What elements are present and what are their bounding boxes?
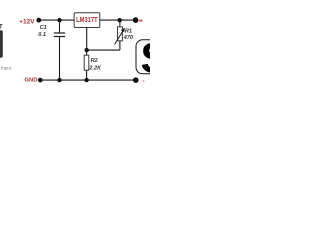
node C1 top junction [57,18,61,22]
wire R1 bottom lead [119,41,121,50]
node C1 bottom junction [57,78,61,82]
node R1 top junction [118,18,122,22]
logo rounded frame (cut off right) [136,40,166,74]
svg-text:LM317T: LM317T [76,17,97,25]
trimmer arrow of R1 [115,30,124,44]
svg-text:0.1: 0.1 [38,32,46,38]
svg-text:T: T [0,23,3,30]
resistor R2 body [84,55,89,70]
wire C1 bottom lead [59,37,61,80]
resistor R1 body (trimmer) [118,27,123,41]
wire top rail left segment [39,19,74,21]
svg-text:S: S [141,34,151,82]
wire bottom rail [40,79,136,81]
node output ground terminal dot [133,77,139,83]
wire top rail right segment [100,19,136,21]
svg-text:C1: C1 [40,25,47,31]
capacitor C1 plates [54,32,65,34]
ground red tick [143,80,145,81]
cut-off photo dark bar (left edge) [0,30,3,57]
wire ADJ pin down from regulator [86,28,88,51]
node R2 bottom junction [84,78,88,82]
svg-text:R1: R1 [125,29,132,35]
svg-text:+12V: +12V [19,19,35,26]
wire R1 top lead [119,20,121,27]
background [0,0,150,100]
svg-text:470: 470 [123,35,134,41]
wire R2 bottom lead [86,70,88,80]
svg-text:GND: GND [25,77,38,83]
node: +12V input terminal dot [36,18,41,23]
node GND input terminal dot [38,78,43,83]
wire R2 top lead [86,50,88,55]
svg-text:Input: Input [1,65,12,70]
wire C1 top lead [59,20,61,33]
node output terminal dot [133,17,139,23]
svg-text:R2: R2 [91,58,99,64]
output red tick [139,20,142,22]
wire ADJ to R1 bottom [87,49,120,51]
node ADJ junction [85,48,89,52]
svg-text:2.2K: 2.2K [88,65,102,71]
op-amp? no: regulator U1 LM317T box [74,13,100,28]
